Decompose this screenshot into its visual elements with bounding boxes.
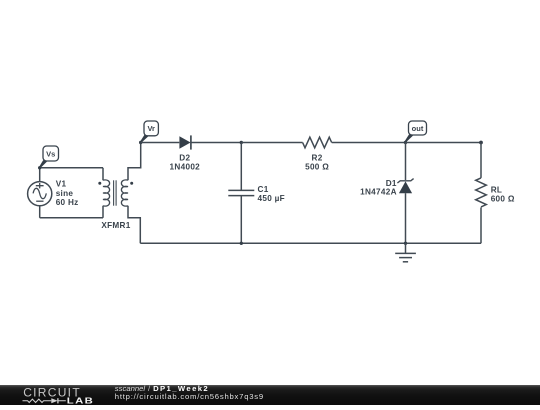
node out junction dot [404, 141, 407, 144]
D2 value label [170, 154, 201, 172]
svg-text:RL: RL [491, 185, 503, 194]
ground [395, 253, 416, 261]
wire C1 node to R2 [241, 142, 302, 144]
wire R2 to out node [332, 142, 406, 144]
wire top-left horizontal to transformer primary [40, 167, 103, 169]
wire D1 anode down [405, 193, 407, 243]
node C1 bottom junction dot [240, 242, 243, 245]
svg-text:1N4742A: 1N4742A [360, 188, 397, 197]
wire primary top drop [102, 168, 104, 181]
svg-text:out: out [412, 124, 424, 133]
svg-text:500 Ω: 500 Ω [305, 163, 329, 172]
net flag Vs [39, 146, 58, 168]
node ground junction dot [404, 242, 407, 245]
svg-text:sine: sine [56, 189, 74, 198]
wire top rail: Vr node to D2 anode [141, 142, 180, 144]
svg-text:450 µF: 450 µF [258, 194, 285, 203]
node C1 top junction dot [240, 141, 243, 144]
CircuitLab logo [0, 385, 100, 406]
wire V1 bottom vertical [39, 206, 41, 218]
svg-text:R2: R2 [312, 154, 323, 163]
svg-text:600 Ω: 600 Ω [491, 194, 515, 203]
resistor RL [476, 178, 487, 207]
wire RL bottom to rail [480, 207, 482, 243]
wire out node to top-right corner [406, 142, 482, 144]
wire secondary top [128, 143, 141, 181]
svg-text:Vs: Vs [46, 149, 55, 158]
wire secondary bottom [128, 206, 140, 244]
wire D1 branch top [405, 143, 407, 181]
wire C1 bottom [240, 196, 242, 244]
wire D2 cathode to C1 node [191, 142, 241, 144]
wire ground stem [405, 243, 407, 253]
svg-text:1N4002: 1N4002 [170, 163, 201, 172]
svg-text:60 Hz: 60 Hz [56, 198, 79, 207]
footer bar [0, 385, 540, 406]
wire V1 top vertical [39, 168, 41, 182]
wire bottom rail [140, 242, 481, 244]
resistor R2 [303, 137, 332, 148]
transformer XFMR1 core [114, 180, 117, 205]
node Vr junction dot [139, 141, 142, 144]
D1 value label [360, 179, 397, 197]
R2 value label [305, 154, 329, 172]
footer credit text [115, 385, 264, 402]
svg-text:C1: C1 [258, 185, 269, 194]
svg-text:D2: D2 [179, 154, 190, 163]
net flag out [405, 121, 427, 142]
wire C1 top [240, 143, 242, 191]
wire right side down to RL [480, 143, 482, 178]
diode D2 [179, 135, 191, 149]
V1 value label: V1 / sine / 60 Hz [56, 179, 79, 207]
node Vs junction dot [38, 166, 41, 169]
svg-text:Vr: Vr [147, 124, 155, 133]
svg-text:V1: V1 [56, 179, 67, 188]
svg-text:D1: D1 [386, 179, 397, 188]
transformer XFMR1 secondary winding [121, 180, 133, 206]
wire primary bottom [102, 206, 104, 218]
svg-text:LAB: LAB [67, 397, 94, 406]
voltage source V1 [28, 182, 52, 206]
C1 value label [258, 185, 285, 203]
node top-right corner dot [479, 141, 483, 145]
wire bottom-left horizontal [40, 217, 103, 219]
svg-text:XFMR1: XFMR1 [101, 221, 130, 230]
transformer XFMR1 primary winding [98, 180, 109, 206]
RL value label [491, 185, 515, 203]
zener diode D1 [397, 179, 413, 194]
capacitor C1 [228, 190, 254, 195]
net flag Vr [140, 121, 158, 143]
